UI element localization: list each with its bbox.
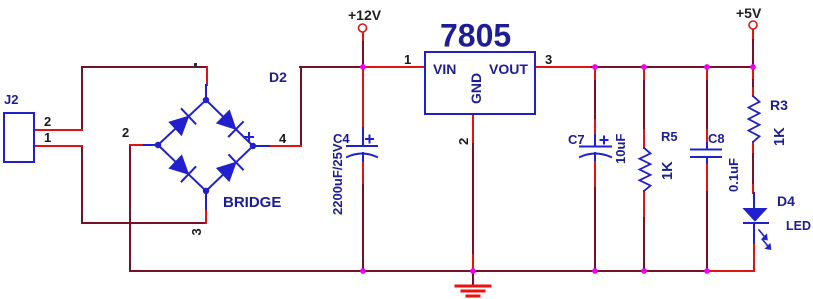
svg-text:VOUT: VOUT	[489, 61, 528, 77]
svg-text:0.1uF: 0.1uF	[726, 158, 741, 192]
svg-text:2: 2	[122, 125, 129, 140]
svg-text:D4: D4	[777, 193, 795, 209]
svg-text:1K: 1K	[660, 161, 676, 180]
svg-text:7805: 7805	[440, 18, 511, 54]
svg-text:2: 2	[44, 114, 51, 129]
svg-text:BRIDGE: BRIDGE	[223, 194, 281, 211]
svg-text:1: 1	[404, 52, 411, 67]
svg-text:GND: GND	[468, 73, 484, 104]
svg-text:10uF: 10uF	[613, 134, 628, 164]
svg-text:2: 2	[456, 138, 471, 145]
svg-text:R3: R3	[770, 97, 788, 113]
svg-text:2200uF/25V: 2200uF/25V	[330, 143, 345, 215]
svg-text:3: 3	[189, 228, 204, 235]
svg-text:4: 4	[279, 131, 287, 146]
svg-text:+5V: +5V	[736, 5, 762, 21]
svg-text:D2: D2	[269, 69, 287, 85]
svg-text:R5: R5	[661, 129, 678, 144]
svg-text:VIN: VIN	[433, 61, 456, 77]
svg-text:C7: C7	[568, 132, 585, 147]
svg-text:J2: J2	[4, 92, 18, 107]
svg-text:3: 3	[545, 52, 552, 67]
svg-text:1K: 1K	[772, 127, 788, 146]
svg-text:+12V: +12V	[348, 7, 382, 23]
svg-text:C8: C8	[708, 131, 725, 146]
svg-text:1: 1	[44, 130, 51, 145]
svg-text:LED: LED	[786, 219, 811, 233]
